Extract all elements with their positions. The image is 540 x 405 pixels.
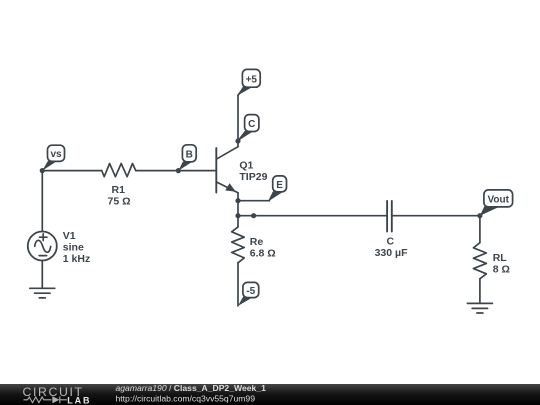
wire output line left of capacitor [238,215,387,217]
wire vs down to V1 [41,171,43,232]
flag box E [273,176,287,192]
wire to +5 flag [238,88,244,95]
svg-text:-5: -5 [246,286,255,297]
svg-text:RL: RL [493,252,508,264]
wire RL to ground [479,279,481,304]
svg-text:1 kHz: 1 kHz [63,253,90,265]
flag box Vout [484,190,513,207]
svg-text:http://circuitlab.com/cq3vv55q: http://circuitlab.com/cq3vv55q7um99 [116,394,256,404]
resistor Re [232,227,245,263]
flag pointer E [269,191,284,201]
svg-text:8 Ω: 8 Ω [493,264,510,276]
flag box C [245,115,259,132]
node B junction dot [176,168,181,173]
source V1 circle [28,232,57,261]
output line junction dot [251,213,256,218]
wire Vout down to RL [479,216,481,243]
CircuitLab logo resistor + diode [24,396,68,403]
node C junction dot [235,138,240,143]
flag box B [182,145,196,162]
wire Re to -5 [237,263,239,306]
V1 sine wave [35,240,51,252]
wire vs to R1 [42,170,101,172]
svg-text:TIP29: TIP29 [239,171,267,183]
node E junction dot [235,198,240,203]
wire E flag horizontal [238,200,269,202]
svg-text:R1: R1 [112,184,126,196]
transistor Q1 bar [215,148,217,192]
resistor RL [473,243,486,279]
flag box vs [48,145,65,161]
svg-text:V1: V1 [63,230,76,242]
svg-text:Re: Re [250,236,264,248]
ground under V1 [30,287,55,289]
svg-text:vs: vs [50,149,62,160]
wire collector up [237,95,239,147]
wire E flag diagonal [269,193,273,201]
resistor R1 [102,164,136,177]
ground under RL [467,302,492,304]
flag pointer C [238,131,254,141]
svg-text:LAB: LAB [67,395,91,405]
svg-text:+5: +5 [246,74,258,85]
svg-text:E: E [276,180,283,191]
svg-text:B: B [186,149,193,160]
flag box -5 [243,282,259,297]
flag pointer Vout [480,206,501,216]
svg-text:agamarra190 / Class_A_DP2_Week: agamarra190 / Class_A_DP2_Week_1 [116,383,267,393]
flag pointer B [178,162,192,171]
node vs junction dot [40,168,45,173]
wire to C flag [238,132,245,141]
svg-text:330 µF: 330 µF [375,247,408,259]
flag pointer +5 [238,86,254,95]
transistor Q1 emitter diagonal [216,182,238,193]
flag box +5 [242,69,260,87]
svg-text:C: C [248,119,255,130]
wire emitter down to Re [237,193,239,227]
transistor Q1 emitter arrowhead [225,183,236,192]
capacitor C left plate [386,201,388,232]
V1 minus sign [39,255,46,257]
wire output line right of capacitor [392,215,480,217]
wire V1 to ground [41,261,43,289]
svg-text:6.8 Ω: 6.8 Ω [250,247,276,259]
svg-text:Q1: Q1 [239,159,253,171]
transistor Q1 collector diagonal [216,147,238,160]
flag pointer vs [42,161,57,171]
flag pointer -5 [238,297,254,306]
svg-text:Vout: Vout [487,194,509,205]
svg-text:75 Ω: 75 Ω [108,195,131,207]
emitter/output junction dot [235,213,240,218]
svg-text:sine: sine [63,241,84,253]
capacitor C right plate [391,201,393,232]
node Vout junction dot [477,213,482,218]
wire R1 to node B to base [136,170,217,172]
V1 plus sign [40,236,47,238]
svg-text:C: C [387,235,395,247]
